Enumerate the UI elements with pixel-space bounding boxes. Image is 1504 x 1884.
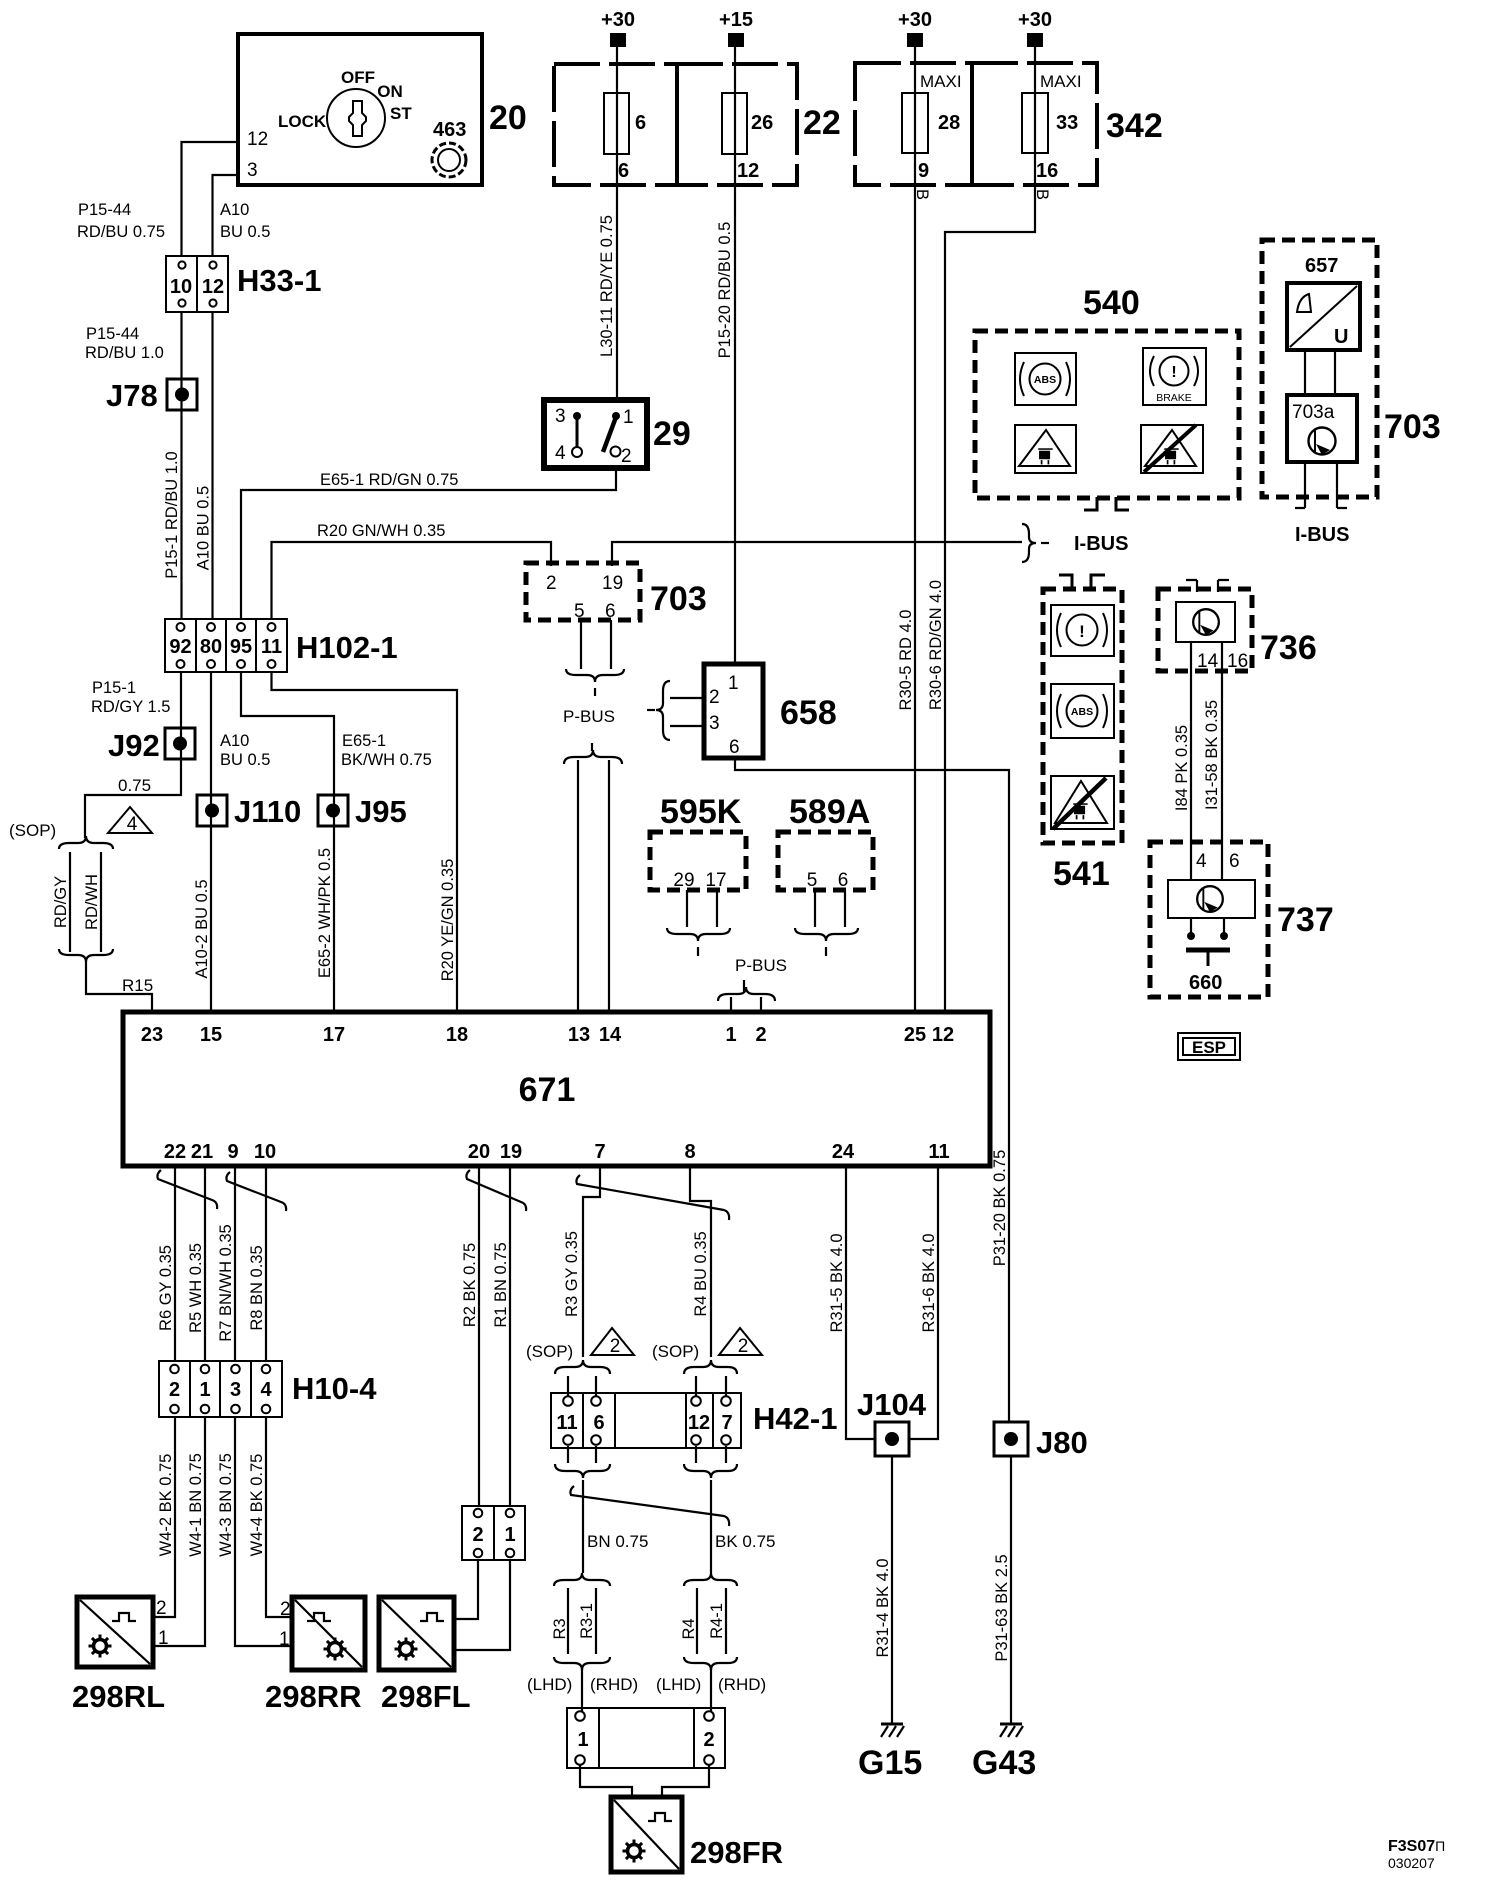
svg-text:2: 2 — [280, 1599, 291, 1620]
svg-text:E65-2 WH/PK 0.5: E65-2 WH/PK 0.5 — [316, 848, 334, 978]
svg-text:33: 33 — [1056, 112, 1078, 134]
svg-text:10: 10 — [170, 276, 192, 298]
svg-text:657: 657 — [1305, 255, 1338, 277]
ground G15 — [881, 1724, 904, 1737]
svg-text:I31-58 BK 0.35: I31-58 BK 0.35 — [1203, 700, 1221, 810]
fuse box 22 — [554, 64, 841, 185]
svg-text:G43: G43 — [972, 1744, 1036, 1782]
wire 589A pin6 — [844, 890, 846, 927]
wire P-BUS to 671 pin13 — [577, 760, 579, 1012]
wire splice to connector pin1 — [581, 1668, 583, 1713]
svg-text:298FL: 298FL — [381, 1679, 471, 1714]
svg-text:J95: J95 — [355, 794, 407, 829]
svg-text:BU 0.5: BU 0.5 — [220, 751, 270, 769]
svg-text:+30: +30 — [898, 9, 932, 31]
svg-text:P15-1: P15-1 — [92, 679, 136, 697]
svg-text:1: 1 — [725, 1024, 736, 1046]
ESP off triangle icon — [1051, 776, 1114, 829]
svg-text:030207: 030207 — [1388, 1855, 1435, 1871]
svg-text:P31-63 BK 2.5: P31-63 BK 2.5 — [993, 1554, 1011, 1661]
svg-text:R31-4 BK 4.0: R31-4 BK 4.0 — [874, 1558, 892, 1657]
fuse 26 — [722, 93, 747, 154]
svg-text:18: 18 — [446, 1024, 468, 1046]
P-BUS brace under 595K — [667, 928, 730, 941]
svg-text:2: 2 — [169, 1379, 180, 1401]
wire H102-1 pin92 to J92 — [180, 672, 182, 759]
svg-text:2: 2 — [610, 1336, 621, 1357]
svg-text:R30-6 RD/GN 4.0: R30-6 RD/GN 4.0 — [927, 580, 945, 710]
wire 736 pin16 to 737 pin6 — [1221, 642, 1223, 880]
wire 703 pin6 — [610, 620, 612, 669]
svg-text:703a: 703a — [1292, 402, 1335, 423]
svg-text:595K: 595K — [660, 793, 742, 831]
svg-text:R30-5 RD 4.0: R30-5 RD 4.0 — [897, 610, 915, 711]
svg-text:R4: R4 — [680, 1618, 698, 1639]
brace under R3/R3-1 — [554, 1657, 610, 1670]
svg-text:ABS: ABS — [1034, 374, 1056, 386]
wire R4-1 — [725, 1588, 727, 1654]
svg-text:U: U — [1334, 326, 1348, 348]
wire 671 pin21 to H10-4 pin1 — [204, 1166, 206, 1361]
wire fuse 28 down to 671 pin25 — [914, 47, 916, 1012]
svg-text:0.75: 0.75 — [118, 776, 151, 795]
svg-text:J92: J92 — [108, 728, 160, 763]
svg-text:1: 1 — [279, 1629, 290, 1650]
svg-text:W4-3 BN 0.75: W4-3 BN 0.75 — [217, 1453, 235, 1557]
svg-text:463: 463 — [433, 119, 466, 141]
BRAKE lamp icon — [1143, 348, 1206, 405]
svg-text:95: 95 — [230, 636, 252, 658]
svg-text:15: 15 — [200, 1024, 222, 1046]
wire 671 pin9 to H10-4 pin3 — [234, 1166, 236, 1361]
svg-text:R20 YE/GN 0.35: R20 YE/GN 0.35 — [439, 859, 457, 982]
svg-text:R5 WH 0.35: R5 WH 0.35 — [187, 1243, 205, 1333]
svg-text:I-BUS: I-BUS — [1074, 533, 1128, 555]
svg-text:4: 4 — [127, 814, 138, 835]
I-BUS pin of 736 — [1186, 580, 1197, 592]
wire J104 to ground G15 — [891, 1456, 893, 1723]
svg-text:13: 13 — [568, 1024, 590, 1046]
svg-text:P31-20 BK 0.75: P31-20 BK 0.75 — [991, 1150, 1009, 1267]
svg-text:4: 4 — [555, 443, 566, 464]
wire 658 pin6 to J80 (P31-20 BK) — [735, 758, 1009, 1422]
svg-text:589A: 589A — [789, 793, 870, 831]
wire P-BUS to 671 pin2 — [760, 997, 762, 1012]
twisted pair mark 9/10 — [226, 1172, 286, 1211]
svg-text:298RL: 298RL — [72, 1679, 165, 1714]
svg-text:+30: +30 — [1018, 9, 1052, 31]
svg-text:BRAKE: BRAKE — [1156, 392, 1192, 404]
wire stubs below H42-1 — [568, 1446, 726, 1463]
svg-text:17: 17 — [705, 870, 726, 891]
svg-text:9: 9 — [227, 1141, 238, 1163]
brace over R4/R4-1 — [684, 1573, 737, 1586]
svg-text:H102-1: H102-1 — [296, 630, 398, 665]
svg-text:1: 1 — [577, 1729, 588, 1751]
wire H102-1 pin80 through J110 to 671 pin15 — [210, 672, 212, 1012]
control unit 658 — [704, 664, 837, 758]
warning lamp cluster 540 — [975, 284, 1239, 498]
brake lamp icon — [1051, 605, 1114, 656]
wire 703 pin5 — [580, 620, 582, 669]
svg-text:737: 737 — [1277, 901, 1334, 939]
svg-text:1: 1 — [728, 673, 739, 694]
wire connector pin1 to 298FL — [454, 1560, 510, 1650]
svg-text:L30-11 RD/YE 0.75: L30-11 RD/YE 0.75 — [598, 215, 616, 357]
svg-text:10: 10 — [254, 1141, 276, 1163]
svg-text:P-BUS: P-BUS — [563, 707, 615, 726]
ABS lamp icon — [1051, 684, 1114, 738]
svg-text:RD/WH: RD/WH — [83, 874, 101, 930]
svg-text:80: 80 — [200, 636, 222, 658]
svg-text:RD/BU 1.0: RD/BU 1.0 — [85, 344, 164, 362]
battery 660 — [1186, 918, 1230, 994]
svg-text:!: ! — [1171, 364, 1176, 381]
svg-text:H42-1: H42-1 — [753, 1401, 837, 1436]
junction J95 — [318, 794, 407, 829]
svg-text:(RHD): (RHD) — [590, 1675, 638, 1694]
svg-text:J104: J104 — [857, 1387, 927, 1422]
svg-text:19: 19 — [500, 1141, 522, 1163]
svg-text:7: 7 — [594, 1141, 605, 1163]
svg-text:2: 2 — [755, 1024, 766, 1046]
svg-text:A10 BU 0.5: A10 BU 0.5 — [195, 486, 213, 570]
wire H33-1 pin12 down to H102-1 pin80 — [211, 312, 213, 619]
twisted pair mark BN/BK — [570, 1486, 729, 1526]
ignition switch 20 — [238, 34, 527, 185]
svg-text:298FR: 298FR — [690, 1835, 783, 1870]
P-BUS brace over 671 pins1/2 — [718, 987, 775, 1001]
svg-text:J80: J80 — [1036, 1425, 1088, 1460]
svg-text:6: 6 — [635, 112, 646, 134]
svg-text:11: 11 — [556, 1412, 577, 1434]
svg-text:23: 23 — [141, 1024, 163, 1046]
svg-text:J110: J110 — [234, 794, 301, 829]
540 I-BUS notch — [1084, 497, 1129, 510]
svg-text:22: 22 — [803, 104, 841, 142]
svg-text:(LHD): (LHD) — [527, 1675, 572, 1694]
svg-text:ON: ON — [377, 82, 403, 101]
svg-text:2: 2 — [738, 1336, 749, 1357]
svg-text:6: 6 — [1229, 851, 1240, 872]
ABS control unit 671 — [123, 1012, 990, 1166]
svg-text:R31-6 BK 4.0: R31-6 BK 4.0 — [920, 1233, 938, 1332]
svg-text:P-BUS: P-BUS — [735, 956, 787, 975]
svg-text:A10: A10 — [220, 201, 249, 219]
svg-text:29: 29 — [673, 870, 694, 891]
connector at 298FR — [567, 1708, 725, 1768]
connector H10-4 — [159, 1361, 377, 1417]
wire 703 pin19 to I-BUS — [612, 542, 1022, 566]
svg-text:5: 5 — [807, 870, 818, 891]
wire J92 to SOP splice — [85, 759, 181, 838]
wire connector pin2 to 298FR — [662, 1765, 709, 1797]
svg-text:R3 GY 0.35: R3 GY 0.35 — [563, 1231, 581, 1317]
ESP off triangle icon (slashed) — [1141, 425, 1203, 473]
wire R4 — [696, 1588, 698, 1654]
svg-text:E65-1: E65-1 — [342, 732, 386, 750]
ESP warning triangle icon — [1015, 425, 1076, 473]
connector 589A — [778, 793, 873, 891]
wire 657 to 703a — [1334, 350, 1336, 395]
541 I-BUS notch — [1059, 575, 1105, 589]
option triangle 2 — [591, 1328, 634, 1357]
svg-text:R8 BN 0.35: R8 BN 0.35 — [248, 1245, 266, 1330]
svg-text:9: 9 — [918, 160, 929, 182]
svg-text:R4-1: R4-1 — [708, 1603, 726, 1639]
svg-text:28: 28 — [938, 112, 960, 134]
brace at 658 pins2/3 — [656, 681, 670, 740]
svg-text:(SOP): (SOP) — [652, 1342, 699, 1361]
ground G43 — [1000, 1724, 1023, 1737]
wire 671 pin24 to J104 — [846, 1166, 875, 1439]
wire H10-4 pin3 to 298RR pin1 — [235, 1417, 292, 1646]
svg-text:541: 541 — [1053, 855, 1110, 893]
wire 595K pin29 — [686, 890, 688, 927]
svg-text:12: 12 — [932, 1024, 954, 1046]
wire fuse 33 jog to 671 pin12 — [945, 47, 1035, 1012]
svg-text:3: 3 — [247, 160, 258, 181]
ESP system tag — [1178, 1033, 1240, 1060]
gauge 657 — [1287, 283, 1360, 350]
svg-text:I84 PK 0.35: I84 PK 0.35 — [1173, 725, 1191, 811]
svg-text:E65-1 RD/GN 0.75: E65-1 RD/GN 0.75 — [320, 471, 458, 489]
svg-text:6: 6 — [729, 737, 740, 758]
svg-text:671: 671 — [519, 1071, 576, 1109]
wire +30 through fuse 6 down to switch 29 pin1 — [616, 47, 618, 400]
svg-text:11: 11 — [928, 1141, 949, 1163]
svg-text:16: 16 — [1036, 160, 1058, 182]
svg-text:29: 29 — [653, 415, 691, 453]
wire H102-1 pin11 to 703 pin2 (R20 GN/WH) — [272, 542, 552, 619]
wheel sensor 298FL — [379, 1597, 471, 1714]
svg-text:12: 12 — [202, 276, 224, 298]
svg-text:!: ! — [1079, 622, 1085, 641]
svg-text:2: 2 — [472, 1524, 483, 1546]
P-BUS brace under 589A — [795, 928, 858, 941]
wire ignition pin3 to H33-1 pin12 — [213, 175, 239, 256]
svg-text:14: 14 — [1197, 651, 1219, 672]
wire 657 to 703a — [1304, 350, 1306, 395]
svg-text:ESP: ESP — [1192, 1038, 1226, 1057]
brace over H42-1 pins 11/6 — [555, 1360, 610, 1374]
svg-text:H33-1: H33-1 — [237, 263, 321, 298]
twisted pair mark 7/8 — [576, 1175, 729, 1220]
svg-text:21: 21 — [191, 1141, 213, 1163]
svg-text:A10-2 BU 0.5: A10-2 BU 0.5 — [193, 879, 211, 978]
wire stubs into H42-1 — [568, 1376, 726, 1396]
wire R3-1 — [595, 1588, 597, 1654]
svg-text:R6 GY 0.35: R6 GY 0.35 — [157, 1245, 175, 1331]
connector at 298FL — [462, 1506, 525, 1560]
svg-text:R1 BN 0.75: R1 BN 0.75 — [492, 1242, 510, 1327]
brace under R4/R4-1 — [684, 1657, 737, 1670]
svg-text:12: 12 — [737, 160, 759, 182]
svg-text:3: 3 — [230, 1379, 241, 1401]
wire 589A pin5 — [814, 890, 816, 927]
wire +15 through fuse 26 down to 658 pin1 — [734, 47, 736, 664]
svg-text:5: 5 — [574, 601, 585, 622]
wire H33-1 pin10 down through J78 to H102-1 pin92 — [180, 312, 182, 619]
svg-text:20: 20 — [489, 99, 527, 137]
junction J92 — [108, 728, 195, 763]
P-BUS brace over 671 pins13/14 — [564, 750, 622, 764]
svg-text:4: 4 — [260, 1379, 272, 1401]
svg-text:1: 1 — [504, 1524, 515, 1546]
svg-text:2: 2 — [156, 1598, 167, 1619]
wire 671 pin22 to H10-4 pin2 — [174, 1166, 176, 1361]
option triangle 4 — [108, 807, 152, 835]
svg-text:17: 17 — [323, 1024, 345, 1046]
svg-text:W4-4 BK 0.75: W4-4 BK 0.75 — [248, 1454, 266, 1557]
svg-text:2: 2 — [546, 573, 557, 594]
I-BUS pin of 703a — [1337, 462, 1347, 508]
svg-text:W4-1 BN 0.75: W4-1 BN 0.75 — [187, 1453, 205, 1557]
svg-text:2: 2 — [703, 1729, 714, 1751]
wire 671 pin20 to connector pin2 — [478, 1166, 480, 1506]
svg-text:24: 24 — [832, 1141, 855, 1163]
connector H42-1 — [551, 1393, 837, 1448]
svg-text:342: 342 — [1106, 107, 1163, 145]
svg-text:25: 25 — [904, 1024, 926, 1046]
svg-text:BN 0.75: BN 0.75 — [587, 1532, 648, 1551]
wire 671 pin11 to J104 — [909, 1166, 938, 1439]
svg-text:BK/WH 0.75: BK/WH 0.75 — [341, 751, 432, 769]
wire connector pin2 to 298FL — [454, 1560, 478, 1619]
fuse 6 — [604, 93, 629, 154]
wheel sensor 298RR — [265, 1597, 365, 1714]
pump unit 703a — [1287, 395, 1357, 462]
twisted pair mark 20/19 — [466, 1170, 526, 1211]
svg-text:OFF: OFF — [341, 68, 375, 87]
wire 671 pin19 to connector pin1 — [509, 1166, 511, 1506]
wire H102-1 pin11 to 671 pin18 — [272, 672, 458, 1012]
wire H42-1 to R4 splice (BK) — [710, 1480, 712, 1573]
steering wheel module 736 — [1158, 589, 1317, 671]
svg-text:12: 12 — [247, 129, 268, 150]
switch 29 — [544, 400, 691, 468]
wire option RD/GY — [69, 852, 71, 952]
wheel sensor 298RL — [72, 1597, 165, 1714]
svg-text:6: 6 — [605, 601, 616, 622]
MAXI fuse box 342 — [855, 63, 1163, 185]
MAXI fuse 28 — [902, 93, 928, 153]
svg-text:4: 4 — [1196, 851, 1207, 872]
svg-text:I-BUS: I-BUS — [1295, 524, 1349, 546]
svg-text:R3-1: R3-1 — [578, 1603, 596, 1639]
I-BUS brace — [1022, 524, 1036, 562]
connector 595K — [650, 793, 746, 891]
svg-text:2: 2 — [621, 446, 632, 467]
svg-text:660: 660 — [1189, 972, 1222, 994]
svg-text:MAXI: MAXI — [1040, 72, 1082, 91]
svg-text:1: 1 — [158, 1628, 169, 1649]
wire H10-4 pin2 to 298RL pin2 — [153, 1417, 175, 1617]
svg-text:R15: R15 — [122, 976, 153, 995]
svg-text:(SOP): (SOP) — [9, 821, 56, 840]
svg-text:ABS: ABS — [1071, 706, 1093, 718]
svg-text:P15-44: P15-44 — [78, 201, 131, 219]
svg-text:R31-5 BK 4.0: R31-5 BK 4.0 — [828, 1233, 846, 1332]
svg-text:W4-2 BK 0.75: W4-2 BK 0.75 — [157, 1454, 175, 1557]
svg-text:BK 0.75: BK 0.75 — [715, 1532, 776, 1551]
wire 595K pin17 — [716, 890, 718, 927]
sensor unit in 737 — [1168, 880, 1255, 918]
twisted pair mark 22/21 — [157, 1170, 217, 1209]
wire 671 pin7 to H42-1 — [583, 1166, 600, 1357]
wire splice to connector pin2 — [710, 1668, 712, 1713]
svg-text:2: 2 — [709, 687, 720, 708]
svg-text:P15-20 RD/BU 0.5: P15-20 RD/BU 0.5 — [716, 222, 734, 359]
wire 29 pin2 to H102-1 pin95 (E65-1 RD/GN) — [241, 468, 616, 619]
wire R3 — [567, 1588, 569, 1654]
connector H33-1 — [166, 256, 321, 312]
I-BUS pin of 736 — [1218, 580, 1229, 592]
wire J80 to ground G43 — [1010, 1456, 1012, 1723]
wire option RD/WH — [100, 852, 102, 952]
svg-text:703: 703 — [650, 580, 707, 618]
brace over R3/R3-1 — [554, 1573, 610, 1586]
svg-text:G15: G15 — [858, 1744, 922, 1782]
svg-text:22: 22 — [164, 1141, 186, 1163]
svg-text:R2 BK 0.75: R2 BK 0.75 — [461, 1243, 479, 1327]
svg-text:R3: R3 — [551, 1618, 569, 1639]
svg-text:MAXI: MAXI — [920, 72, 962, 91]
svg-text:J78: J78 — [106, 378, 158, 413]
wheel sensor 298FR — [611, 1797, 783, 1872]
svg-text:16: 16 — [1227, 651, 1248, 672]
svg-text:+30: +30 — [601, 9, 635, 31]
sensor unit in 736 — [1176, 602, 1235, 642]
svg-text:8: 8 — [684, 1141, 695, 1163]
brace under H42-1 pins 11/6 — [555, 1464, 610, 1478]
P-BUS brace under 703 — [566, 669, 624, 682]
option triangle 2 — [719, 1328, 762, 1357]
wire H10-4 pin4 to 298RR pin2 — [266, 1417, 292, 1617]
SOP brace bottom — [59, 949, 113, 962]
svg-text:RD/BU 0.75: RD/BU 0.75 — [77, 223, 165, 241]
svg-text:(RHD): (RHD) — [718, 1675, 766, 1694]
svg-text:H10-4: H10-4 — [292, 1371, 377, 1406]
svg-text:12: 12 — [688, 1412, 710, 1434]
junction J80 — [994, 1422, 1088, 1460]
wire 671 pin8 to H42-1 — [690, 1166, 711, 1357]
wire H10-4 pin1 to 298RL pin1 — [153, 1417, 205, 1646]
junction J104 — [857, 1387, 927, 1456]
wire ignition pin12 to H33-1 pin10 — [182, 142, 239, 256]
svg-text:658: 658 — [780, 694, 837, 732]
brace over H42-1 pins 12/7 — [684, 1360, 737, 1374]
wire P-BUS to 671 pin1 — [730, 997, 732, 1012]
svg-text:14: 14 — [599, 1024, 622, 1046]
brace under H42-1 pins 12/7 — [684, 1464, 737, 1478]
svg-text:R20 GN/WH 0.35: R20 GN/WH 0.35 — [317, 522, 445, 540]
ABS lamp icon — [1015, 353, 1076, 405]
wire 671 pin10 to H10-4 pin4 — [265, 1166, 267, 1361]
svg-text:6: 6 — [838, 870, 849, 891]
svg-text:11: 11 — [261, 636, 282, 658]
svg-text:R4 BU 0.35: R4 BU 0.35 — [692, 1231, 710, 1316]
svg-text:+15: +15 — [719, 9, 753, 31]
svg-text:26: 26 — [751, 112, 773, 134]
svg-text:703: 703 — [1384, 408, 1441, 446]
wire H102-1 pin95 through J95 to 671 pin17 — [241, 672, 334, 1012]
svg-text:(LHD): (LHD) — [656, 1675, 701, 1694]
svg-text:P15-44: P15-44 — [86, 325, 139, 343]
wire 736 pin14 to 737 pin4 — [1190, 642, 1192, 880]
svg-text:20: 20 — [468, 1141, 490, 1163]
svg-text:92: 92 — [169, 636, 191, 658]
